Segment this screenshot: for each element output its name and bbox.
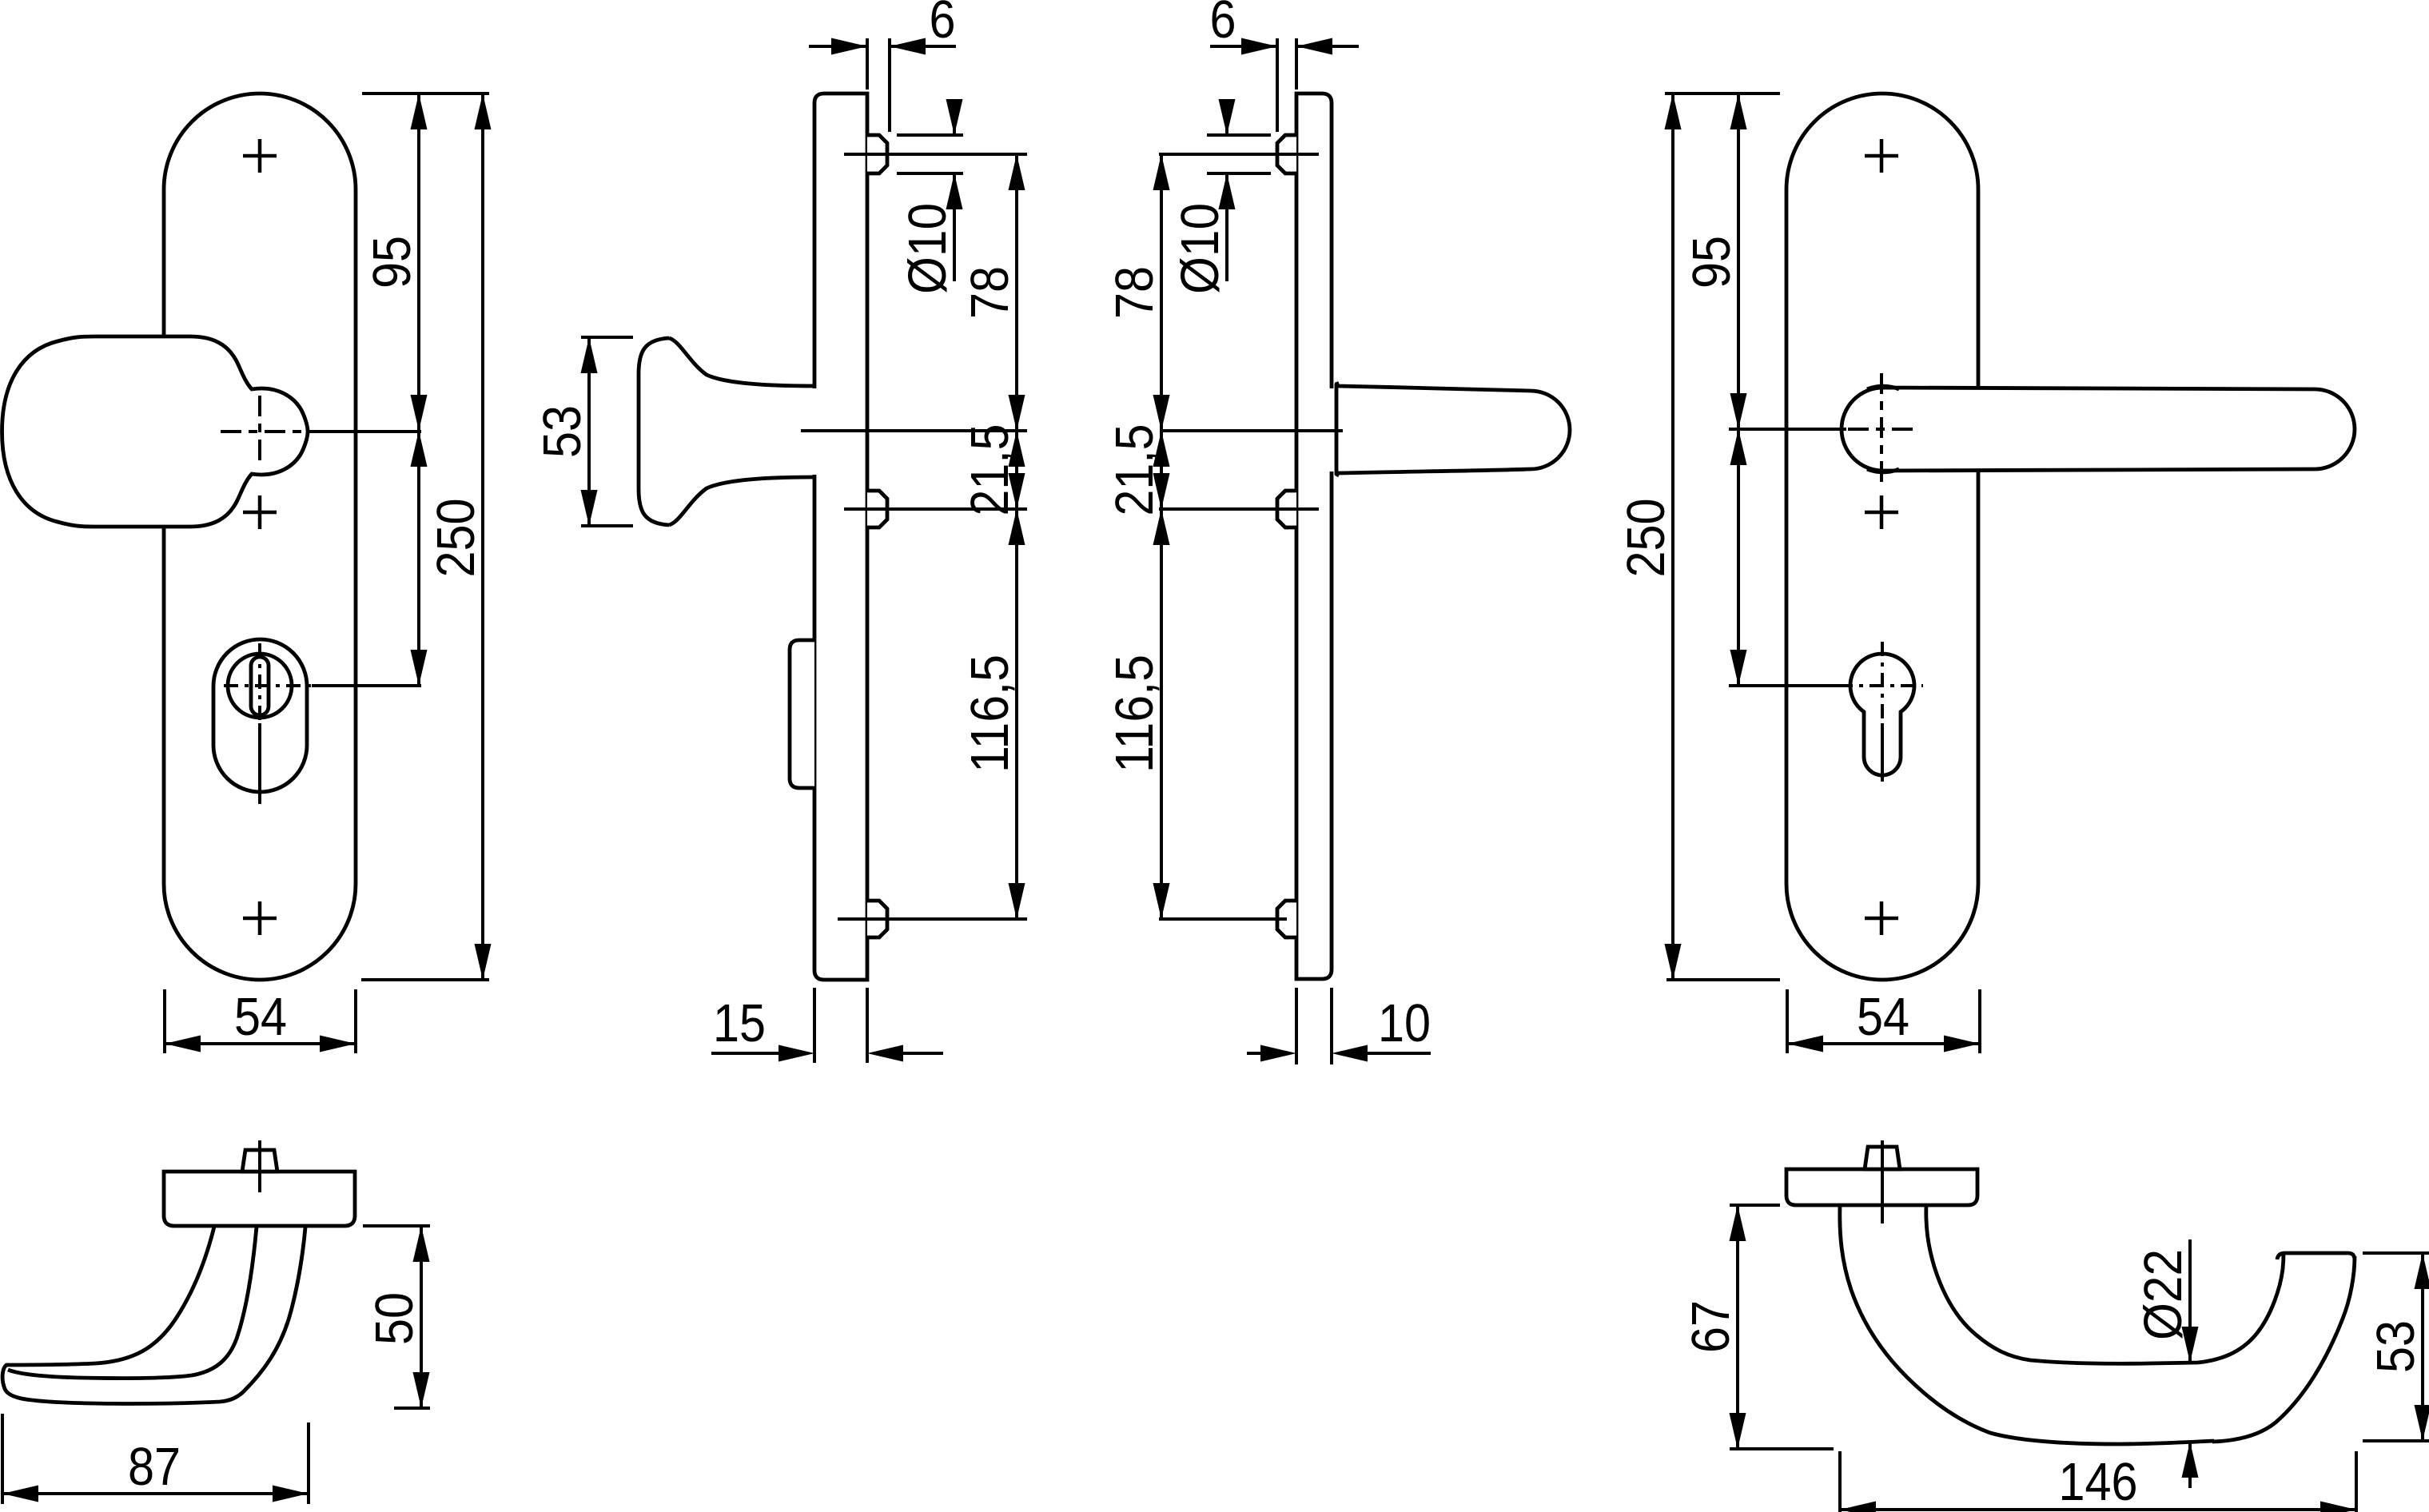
- svg-text:53: 53: [2366, 1320, 2426, 1373]
- knob centre mark dashed cross: [258, 396, 261, 468]
- dimension 21,5 line: [1015, 431, 1018, 509]
- svg-text:6: 6: [930, 0, 956, 50]
- fixing bolt top (plate B1): [1277, 135, 1296, 173]
- plate B1 front view, 54x250 rounded: [1786, 94, 1978, 980]
- fixing bolt middle (plate B1): [1277, 491, 1296, 527]
- PZ horizontal centre line: [1729, 684, 1838, 687]
- extension line top (plate B1): [1665, 92, 1780, 95]
- lever neck circle arcs: [1867, 386, 1899, 472]
- fixing bolt bottom (side view): [867, 901, 887, 937]
- dimension 6 line (B1): [1210, 45, 1277, 48]
- plate edge gap at lever neck: [1328, 388, 1336, 472]
- bolt top centre line (B1): [1159, 153, 1319, 156]
- security rosette oval (cylinder cover): [213, 639, 307, 792]
- knob K1 front view: [2, 336, 309, 527]
- svg-text:Ø22: Ø22: [2133, 1249, 2193, 1340]
- bolt middle centre line: [844, 507, 1027, 511]
- svg-text:250: 250: [1616, 499, 1676, 578]
- svg-text:78: 78: [1105, 266, 1165, 319]
- screw cross bottom (plate B1): [1865, 901, 1898, 935]
- dimension 15 extension lines: [813, 988, 816, 1063]
- svg-text:Ø10: Ø10: [1170, 203, 1230, 294]
- svg-text:21,5: 21,5: [1105, 424, 1165, 516]
- svg-text:87: 87: [128, 1437, 181, 1497]
- dimension O10 line (B1): [1225, 101, 1228, 135]
- dimension 116,5 line: [1015, 509, 1018, 919]
- dimension 21,5 line (B1): [1160, 431, 1163, 509]
- dimension 50 line: [420, 1226, 423, 1408]
- dimension 146 line: [1840, 1508, 2356, 1511]
- euro profile cylinder hole PZ: [1850, 654, 1914, 775]
- plate A1 side profile (15 thick): [814, 94, 867, 980]
- dimension handle-to-cylinder line: [417, 431, 420, 686]
- svg-text:15: 15: [713, 993, 766, 1053]
- svg-text:Ø10: Ø10: [898, 203, 958, 294]
- dimension 67 extension lines: [1730, 1204, 1780, 1207]
- bolt top centre line: [844, 153, 1027, 156]
- cylinder horizontal centre line: [224, 684, 312, 687]
- screw cross middle (plate A1): [243, 495, 277, 529]
- dimension handle-to-cylinder line (B1): [1737, 429, 1740, 686]
- extension lines 54 (plate A1): [163, 989, 166, 1053]
- cylinder cover bump side view: [790, 640, 814, 788]
- dimension 250 line (B1): [1671, 94, 1674, 980]
- plate A1 end view: [164, 1172, 355, 1226]
- dimension 54 line: [165, 1042, 356, 1045]
- dimension 78 line (B1): [1160, 154, 1163, 431]
- lever L1 grip front view: [1842, 388, 2355, 471]
- dimension 95 line: [417, 94, 420, 431]
- dimension 15 line: [711, 1052, 781, 1055]
- bolt bottom centre line (B1): [1159, 917, 1287, 921]
- svg-text:250: 250: [426, 499, 486, 578]
- cylinder core circle: [228, 654, 292, 718]
- fixing bolt middle (side view): [867, 491, 887, 527]
- screw cross top (plate B1): [1865, 139, 1898, 173]
- svg-text:21,5: 21,5: [960, 424, 1020, 516]
- lever centre line side view: [1161, 429, 1343, 432]
- dimension 53 line (lever): [2421, 1253, 2424, 1441]
- fixing bolt top (side view): [867, 135, 887, 173]
- screw cross bottom (plate A1): [243, 901, 277, 935]
- plate edge gap at knob neck: [810, 388, 818, 475]
- svg-text:95: 95: [1682, 236, 1742, 288]
- plate B1 end view: [1786, 1169, 1977, 1205]
- knob K1 side profile: [639, 338, 815, 525]
- spindle stub (lever): [1865, 1147, 1900, 1169]
- fixing bolt bottom (plate B1): [1277, 901, 1296, 937]
- svg-text:6: 6: [1210, 0, 1236, 50]
- svg-text:78: 78: [960, 266, 1020, 319]
- svg-text:116,5: 116,5: [1105, 655, 1165, 773]
- bolt diameter extension lines (B1): [1207, 133, 1271, 137]
- dimension 67 line: [1736, 1205, 1739, 1449]
- dimension 78 line: [1015, 154, 1018, 431]
- dimension O22 line: [2188, 1239, 2192, 1363]
- dimension 250 line: [481, 94, 484, 980]
- dimension 116,5 line (B1): [1160, 509, 1163, 919]
- dimension 6 extension lines (B1): [1276, 38, 1279, 132]
- spindle stub (knob): [242, 1150, 277, 1172]
- svg-text:95: 95: [362, 236, 422, 288]
- svg-text:53: 53: [532, 405, 592, 458]
- dimension 87 line: [2, 1492, 309, 1495]
- knob K1 top view body: [2, 1227, 305, 1403]
- dimension 146 extension lines: [1838, 1451, 1842, 1512]
- bolt middle centre line (B1): [1159, 507, 1319, 511]
- extension line top (plate A1): [362, 92, 489, 95]
- lever L1 side profile: [1336, 382, 1570, 476]
- spindle centre line (lever): [1881, 1140, 1884, 1224]
- PZ vertical centre line: [1881, 642, 1884, 723]
- extension lines 54 (plate B1): [1786, 989, 1789, 1053]
- svg-text:146: 146: [2059, 1452, 2138, 1512]
- svg-text:54: 54: [234, 987, 287, 1047]
- lever L1 top view: [1840, 1205, 2355, 1444]
- dimension 54 line (B1): [1787, 1042, 1980, 1045]
- screw cross middle (plate B1): [1865, 495, 1898, 529]
- dimension 50 extension lines: [363, 1224, 430, 1228]
- dimension 10 extension lines: [1295, 988, 1298, 1064]
- screw cross top (plate A1): [243, 139, 277, 173]
- svg-text:50: 50: [364, 1292, 424, 1345]
- svg-text:116,5: 116,5: [960, 655, 1020, 773]
- knob centre line to dimension: [307, 430, 421, 433]
- keyway slot: [251, 657, 269, 715]
- dimension 6 line: [809, 45, 867, 48]
- extension line bottom (plate A1): [361, 978, 489, 981]
- svg-text:67: 67: [1681, 1300, 1741, 1353]
- svg-text:54: 54: [1857, 987, 1909, 1047]
- dimension 53 extension lines (lever): [2363, 1251, 2429, 1255]
- dimension 10 line: [1247, 1052, 1263, 1055]
- lever centre mark dashed cross: [1880, 373, 1883, 486]
- bolt bottom centre line: [838, 917, 1027, 921]
- bolt diameter extension lines: [897, 133, 963, 137]
- dimension 95 line (B1): [1737, 94, 1740, 429]
- extension line bottom (plate B1): [1666, 978, 1780, 981]
- plate A1 front view (knob side), 54x250 rounded: [164, 94, 356, 980]
- lever centre line to dimension: [1729, 428, 1846, 431]
- knob centre line side view: [801, 429, 1027, 432]
- cylinder vertical centre line: [258, 643, 261, 723]
- dimension 53 line: [587, 337, 591, 526]
- dimension 87 extension lines: [1, 1414, 4, 1504]
- plate B1 side profile (10 thick): [1296, 94, 1332, 979]
- spindle centre line (knob): [258, 1140, 261, 1192]
- svg-text:10: 10: [1378, 993, 1431, 1053]
- dimension 6 extension lines: [866, 38, 869, 90]
- dimension 53 extension lines: [581, 336, 633, 339]
- dimension O10 line: [953, 101, 956, 135]
